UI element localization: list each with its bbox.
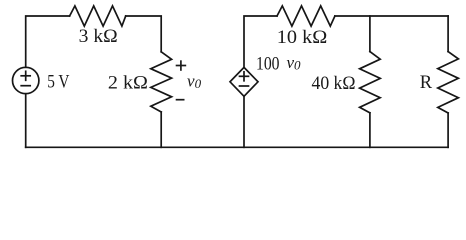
wire bottom [26, 146, 448, 148]
label plus v0 [176, 65, 187, 67]
svg-text:0: 0 [294, 58, 301, 73]
svg-text:2 kΩ: 2 kΩ [108, 74, 148, 94]
wire dep source top lead [244, 16, 277, 67]
wire R bottom lead [447, 113, 449, 147]
wire top right [335, 15, 448, 17]
wire 40k top lead [369, 16, 371, 52]
resistor R1 3k [70, 6, 126, 26]
wire top mid [126, 16, 162, 52]
wire left vertical top [26, 16, 70, 67]
svg-text:0: 0 [195, 76, 202, 91]
svg-text:100: 100 [256, 55, 280, 75]
dependent source U1 100v0 [230, 67, 258, 96]
resistor R2 2k [151, 52, 172, 112]
label minus v0 [176, 99, 185, 101]
wire dep source bottom lead [243, 96, 245, 147]
wire 40k bottom lead [369, 113, 371, 148]
svg-text:5 V: 5 V [47, 73, 70, 93]
wire 2k bottom lead [160, 112, 162, 147]
voltage source V1 5V [13, 67, 39, 93]
wire left vertical bottom [25, 94, 27, 148]
resistor R4 40k [360, 52, 381, 113]
svg-text:40 kΩ: 40 kΩ [312, 74, 356, 94]
svg-text:10 kΩ: 10 kΩ [277, 28, 328, 48]
svg-text:3 kΩ: 3 kΩ [79, 27, 118, 47]
resistor R3 10k [277, 6, 335, 26]
resistor R5 R [438, 52, 459, 113]
wire R top lead [447, 16, 449, 52]
svg-text:R: R [420, 73, 433, 93]
